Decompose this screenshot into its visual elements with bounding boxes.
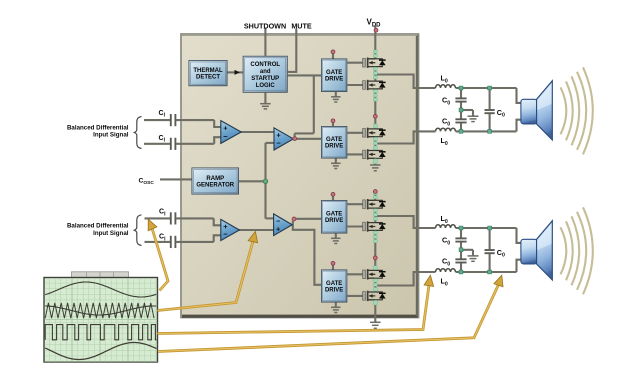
pin gate drive U6 — [331, 261, 335, 265]
IC body (amplifier chip) — [181, 34, 419, 318]
wire vertical to comparator output node — [313, 75, 315, 133]
wire pin stem U4 — [332, 121, 334, 127]
svg-text:+: + — [276, 225, 281, 234]
wire shunt cap leg lower ch2 — [460, 263, 462, 272]
arrow scope to output OUT2- — [158, 284, 430, 334]
wire gate lead Q2 — [347, 84, 364, 86]
wire gate lead Q5 — [347, 203, 364, 205]
speaker LS2 — [521, 221, 552, 280]
wire rail Q7-Q8 midpoint — [374, 279, 376, 292]
wire jog to + input — [214, 218, 222, 225]
wire filter bottom channel2 — [456, 271, 517, 273]
capacitor C9 shunt lower ch2 — [455, 259, 466, 262]
arrow scope to speaker ch2 — [158, 284, 499, 352]
wire MUTE net vertical — [295, 29, 297, 73]
wire speaker terminal 1- — [517, 120, 522, 132]
op-amp A2 PWM comparator ch1 — [274, 128, 293, 150]
wire stub to output node — [294, 133, 296, 137]
wire thermal detect to control logic — [228, 71, 244, 73]
wire VDD supply — [374, 26, 376, 59]
wire comparator to gate drive U6 — [293, 221, 321, 285]
capacitor C10 across ch2 — [485, 250, 495, 253]
wire C1 to comparator — [176, 119, 214, 121]
wire shunt cap leg upper ch1 — [460, 88, 462, 98]
wire output OUT1- — [375, 131, 435, 143]
wire shunt cap leg lower ch1 — [460, 123, 462, 131]
wire input IN2- — [145, 241, 171, 243]
scope trace modulating sine — [45, 306, 156, 315]
oscilloscope grid — [45, 278, 158, 362]
capacitor C8 shunt upper ch2 — [455, 238, 466, 241]
svg-text:−: − — [223, 132, 228, 141]
block ramp generator U7 — [192, 168, 240, 195]
capacitor C2 — [171, 138, 176, 150]
wire rail to Q5 — [374, 190, 376, 200]
wire comparator A1 out to A2 in — [241, 131, 274, 133]
wire ground stem ch2 — [472, 250, 474, 256]
capacitor C7 across ch1 — [485, 110, 495, 113]
block thermal detect U1 — [189, 60, 228, 86]
wire filter mid to ground ch2 — [461, 249, 473, 251]
wire ramp trunk vertical — [264, 143, 266, 219]
arrow scope to input ch2 — [152, 227, 169, 291]
wire shunt cap leg mid ch2 — [460, 242, 462, 258]
wire gate lead Q1 — [347, 62, 364, 64]
wire C2 to comparator — [176, 143, 214, 145]
transistor Q6 — [363, 221, 376, 231]
transistor Q4 — [363, 149, 376, 159]
wire ground stem U5 — [335, 234, 337, 239]
transistor Q3 — [363, 128, 376, 138]
wire across cap lower ch1 — [489, 114, 491, 131]
wire shunt cap leg mid ch1 — [460, 102, 462, 118]
wire ground stem ch1 — [472, 110, 474, 116]
svg-text:CONTROL: CONTROL — [250, 62, 280, 68]
pin rail mid channel1 — [373, 114, 377, 118]
svg-text:GATE: GATE — [326, 137, 342, 143]
wire ramp to comparator A2 - — [266, 142, 275, 144]
junction node (489.6,272) — [488, 270, 492, 274]
junction node (461,228) — [459, 226, 463, 230]
transistor Q1 — [363, 58, 376, 68]
pin VDD — [374, 28, 378, 32]
wire ground stem U4 — [335, 159, 337, 164]
svg-text:RAMP: RAMP — [206, 176, 224, 182]
ground filter ch1 — [468, 116, 479, 121]
wire ramp to comparator A4 - — [266, 217, 274, 219]
op-amp A3 input comparator ch2 — [221, 219, 240, 240]
wire output OUT2+ — [375, 216, 435, 228]
pin gate drive U4 — [331, 119, 335, 123]
wire gate lead Q7 — [347, 273, 364, 275]
block gate drive U6 — [321, 270, 347, 303]
body diode of Q3 — [375, 129, 385, 137]
ground gate drive U6 — [331, 307, 341, 312]
transistor Q7 — [363, 269, 376, 279]
block gate drive U3 — [321, 59, 347, 93]
wire pin stem U5 — [332, 195, 334, 202]
ground filter ch2 — [468, 256, 479, 261]
wire output OUT2- — [375, 272, 435, 286]
capacitor C4 — [171, 236, 176, 248]
capacitor C5 shunt upper ch1 — [455, 98, 466, 101]
wire gate lead Q4 — [347, 153, 364, 155]
body diode of Q6 — [375, 223, 385, 231]
ground control logic — [260, 104, 271, 109]
wire speaker terminal 2- — [517, 260, 522, 272]
body diode of Q5 — [375, 200, 385, 208]
wire speaker terminal 2+ — [517, 228, 522, 243]
wire gate lead Q3 — [347, 132, 364, 134]
arrowhead thermal to control — [235, 70, 240, 75]
wire pin stem U3 — [332, 52, 334, 59]
wire input IN2+ — [145, 217, 171, 219]
body diode of Q4 — [375, 151, 385, 159]
wire C3 to comparator — [176, 217, 214, 219]
capacitor C3 — [171, 212, 176, 224]
body diode of Q7 — [375, 270, 385, 278]
capacitor C1 — [171, 114, 176, 126]
wire across cap upper ch2 — [489, 228, 491, 249]
ground gate drive U4 — [331, 163, 341, 168]
wire gate lead Q6 — [347, 225, 364, 227]
wire filter top channel2 — [456, 227, 517, 229]
sound waves LS1 — [561, 67, 593, 154]
svg-text:DRIVE: DRIVE — [325, 288, 343, 294]
pin rail top channel2 — [373, 190, 377, 194]
wire ground stem control logic — [264, 93, 266, 104]
ground gate drive U3 — [331, 97, 341, 102]
svg-text:Balanced Differential: Balanced Differential — [67, 223, 129, 230]
wire ramp generator output — [239, 180, 266, 182]
body diode of Q1 — [375, 59, 385, 67]
body diode of Q8 — [375, 292, 385, 300]
wire ground stem U6 — [335, 303, 337, 308]
wire filter top channel1 — [456, 87, 517, 89]
wire COSC input — [160, 178, 192, 180]
svg-text:THERMAL: THERMAL — [193, 68, 223, 74]
junction node (489.6,88) — [488, 86, 492, 90]
capacitor C6 shunt lower ch1 — [455, 119, 466, 122]
junction node (461,131.4) — [459, 130, 463, 134]
scope trace output sine — [45, 343, 156, 360]
brace input channel2 — [134, 215, 141, 246]
pin gate drive U3 — [331, 50, 335, 54]
wire input IN1- — [144, 143, 170, 145]
wire shunt cap leg upper ch2 — [460, 228, 462, 238]
svg-text:GENERATOR: GENERATOR — [196, 183, 234, 189]
inductor L2 — [436, 128, 456, 131]
ground gate drive U5 — [331, 238, 341, 243]
wire jog to - input — [214, 137, 221, 144]
inductor L4 — [436, 269, 456, 272]
wire gate lead Q8 — [347, 295, 364, 297]
node comparator A4 output — [292, 217, 296, 221]
svg-text:GATE: GATE — [326, 212, 342, 218]
wire pin stem U6 — [332, 264, 334, 271]
svg-text:−: − — [223, 230, 228, 239]
svg-text:STARTUP: STARTUP — [251, 76, 279, 82]
wire across cap upper ch1 — [489, 88, 491, 109]
oscilloscope body — [44, 272, 158, 362]
op-amp A4 PWM comparator ch2 — [274, 214, 293, 236]
svg-text:Input Signal: Input Signal — [93, 230, 129, 237]
wire rail Q2 to Q3 — [374, 89, 376, 129]
svg-text:Balanced Differential: Balanced Differential — [67, 124, 129, 131]
transistor Q8 — [363, 291, 376, 301]
node accents rail channel2 — [373, 192, 377, 195]
block control and startup logic U2 — [243, 56, 288, 93]
inductor L1 — [436, 85, 456, 88]
wire input IN1+ — [144, 119, 170, 121]
pin gate drive U5 — [331, 192, 335, 196]
svg-text:GATE: GATE — [326, 281, 342, 287]
svg-text:GATE: GATE — [326, 70, 342, 76]
scope trace triangle carrier — [45, 303, 154, 318]
junction node (461,88) — [459, 86, 463, 90]
junction node (489.6,228) — [488, 226, 492, 230]
transistor Q2 — [363, 80, 376, 90]
pin rail mid channel2 — [373, 256, 377, 260]
wire rail Q3-Q4 midpoint — [374, 137, 376, 150]
wire jog to + input — [214, 120, 221, 127]
block gate drive U5 — [321, 200, 347, 234]
arrow scope to comparator ch2 — [158, 241, 254, 311]
junction node (461,110) — [459, 108, 463, 112]
scope trace input sine ch1 — [45, 282, 156, 297]
svg-text:DRIVE: DRIVE — [325, 77, 343, 83]
wire MUTE into control box — [288, 71, 298, 73]
svg-text:−: − — [276, 139, 281, 148]
junction node (489.6,131.4) — [488, 130, 492, 134]
svg-text:DRIVE: DRIVE — [325, 218, 343, 224]
wire rail Q6 to Q7 — [374, 231, 376, 271]
wire comparator to gate drive U4 — [296, 138, 322, 140]
inductor L3 — [436, 225, 456, 228]
wire jog to - input — [214, 235, 222, 242]
svg-text:LOGIC: LOGIC — [256, 83, 276, 89]
svg-text:and: and — [260, 69, 271, 75]
svg-text:DRIVE: DRIVE — [325, 144, 343, 150]
wire across cap lower ch2 — [489, 254, 491, 272]
svg-text:Input Signal: Input Signal — [93, 132, 129, 139]
wire ground stem U3 — [335, 92, 337, 97]
wire filter bottom channel1 — [456, 130, 517, 132]
junction node (461,249.8) — [459, 248, 463, 252]
speaker LS1 — [521, 81, 552, 140]
wire comparator to gate drive U5 — [296, 218, 322, 220]
junction node (461,272) — [459, 270, 463, 274]
scope trace PWM — [45, 325, 156, 340]
wire speaker terminal 1+ — [517, 88, 522, 103]
block gate drive U4 — [321, 126, 347, 159]
sound waves LS2 — [561, 207, 593, 294]
node accents rail channel1 — [373, 50, 377, 53]
wire output OUT1+ — [375, 75, 435, 89]
svg-text:MUTE: MUTE — [291, 22, 312, 31]
op-amp A1 input comparator ch1 — [221, 121, 241, 144]
wire rail Q4 to ground — [374, 159, 376, 165]
wire control logic to gate drive U3 — [288, 74, 321, 76]
svg-text:DETECT: DETECT — [196, 75, 220, 81]
node comparator A2 output — [293, 137, 297, 141]
wire comparator output branch — [295, 132, 314, 134]
wire rail Q5-Q6 midpoint — [374, 209, 376, 223]
transistor Q5 — [363, 199, 376, 209]
brace input channel1 — [134, 117, 141, 149]
body diode of Q2 — [375, 81, 385, 89]
ground FET stack channel1 — [370, 165, 381, 171]
wire C4 to comparator — [176, 241, 214, 243]
wire SHUTDOWN net — [264, 29, 266, 56]
wire comparator A3 out to A4 in — [239, 229, 274, 231]
wire rail Q1-Q2 midpoint — [374, 67, 376, 81]
wire filter mid to ground ch1 — [461, 109, 473, 111]
ground FET stack channel2 — [370, 322, 381, 328]
node ramp junction — [263, 179, 268, 184]
svg-text:SHUTDOWN: SHUTDOWN — [244, 22, 286, 31]
wire rail Q8 to ground — [374, 300, 376, 322]
